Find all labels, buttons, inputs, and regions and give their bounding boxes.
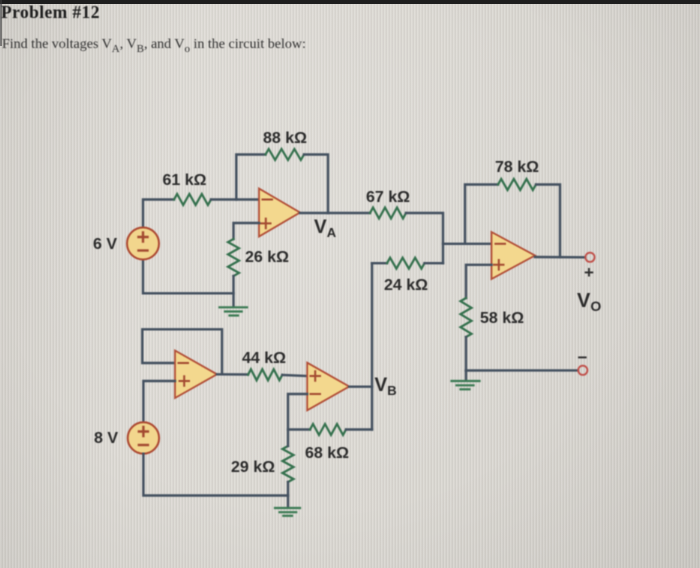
ground (stage 3) bbox=[275, 508, 300, 516]
wire: U3 feedback loop bbox=[142, 329, 222, 374]
U1 minus sign bbox=[263, 199, 273, 201]
svg-text:8 V: 8 V bbox=[94, 430, 118, 447]
resistor R 26k zigzag (vertical) bbox=[228, 239, 239, 276]
svg-text:24 kΩ: 24 kΩ bbox=[384, 277, 428, 294]
U3 minus sign bbox=[179, 362, 189, 364]
svg-text:67 kΩ: 67 kΩ bbox=[366, 189, 410, 206]
svg-text:68 kΩ: 68 kΩ bbox=[305, 445, 349, 462]
svg-text:26 kΩ: 26 kΩ bbox=[245, 249, 289, 266]
svg-text:6 V: 6 V bbox=[93, 236, 117, 253]
wire: 58k down to bottom rail bbox=[465, 337, 467, 371]
op-amp U3 bbox=[175, 351, 217, 399]
wire: node to 29k bbox=[287, 430, 289, 447]
wire: 24k branch bbox=[372, 262, 387, 264]
wire: ground stem stage 2 bbox=[465, 371, 467, 381]
wire: U3 noninverting input to 8V source bbox=[143, 381, 175, 423]
wire: 67k right then down to summing node bbox=[406, 213, 443, 263]
U2 minus sign bbox=[496, 243, 506, 245]
wire: 88k to output node riser bbox=[304, 155, 328, 214]
wire: 8V bottom rail bbox=[143, 454, 288, 496]
wire: U4 inverting input down to 68k/29k node bbox=[288, 394, 310, 430]
title: Problem #12 bbox=[1, 2, 100, 23]
wire: 44k to U4 noninverting input bbox=[282, 375, 307, 376]
resistor R 67k zigzag bbox=[370, 208, 406, 219]
U2 plus sign bbox=[494, 260, 504, 270]
wire: feedback left riser at node x=236 bbox=[236, 155, 265, 200]
wire: 6V top terminal up and right to 61k bbox=[143, 200, 174, 229]
prompt text bbox=[2, 37, 306, 55]
ground (stage 2) bbox=[452, 381, 480, 389]
op-amp U4 bbox=[307, 363, 349, 411]
resistor R 24k zigzag bbox=[387, 258, 425, 269]
wire: bottom rail to minus terminal bbox=[466, 369, 578, 372]
source V1 6V bbox=[127, 228, 159, 260]
source V2 8V bbox=[128, 422, 159, 453]
resistor R 61k zigzag bbox=[174, 194, 211, 205]
wire: 68k to VB riser bbox=[346, 428, 372, 430]
wire: U2 feedback riser bbox=[465, 185, 498, 244]
terminal - (open circle) bbox=[578, 366, 587, 375]
U3 plus sign bbox=[180, 376, 190, 386]
wire: U1 noninverting input to 26k bbox=[234, 223, 260, 239]
wire: 29k to bottom rail bbox=[287, 482, 289, 507]
wire: U2 noninverting input to 58k bbox=[466, 265, 492, 298]
svg-text:+: + bbox=[584, 263, 594, 282]
wire: 26k down to ground bbox=[232, 276, 234, 307]
wire: 61k to U1 inverting input bbox=[211, 198, 259, 200]
resistor R 78k zigzag (feedback) bbox=[498, 179, 536, 190]
svg-text:−: − bbox=[578, 348, 588, 367]
resistor R 29k zigzag (vertical) bbox=[283, 446, 294, 482]
wire: U3 output to 44k bbox=[217, 373, 248, 376]
ground (stage 1) bbox=[220, 307, 248, 315]
resistor R 88k zigzag (feedback) bbox=[266, 149, 305, 160]
svg-text:29 kΩ: 29 kΩ bbox=[231, 459, 275, 476]
op-amp U1 bbox=[259, 189, 300, 237]
svg-text:61 kΩ: 61 kΩ bbox=[163, 172, 207, 189]
wire: 24k to node riser bbox=[425, 262, 444, 264]
wire: 78k down to output bbox=[536, 185, 560, 258]
svg-text:58 kΩ: 58 kΩ bbox=[480, 310, 524, 327]
svg-text:VO: VO bbox=[577, 290, 601, 314]
U1 plus sign bbox=[261, 219, 271, 229]
resistor R 68k zigzag (feedback) bbox=[310, 424, 346, 435]
svg-text:44 kΩ: 44 kΩ bbox=[242, 350, 286, 367]
wire: U2 output to terminal bbox=[535, 256, 585, 259]
wire: 6V bottom around to ground node bbox=[143, 260, 234, 294]
wire: VB vertical riser bbox=[371, 263, 373, 429]
wire: summing node to U2 inverting input bbox=[443, 243, 492, 245]
wire: U4 output to VB node bbox=[349, 386, 372, 388]
resistor R 58k zigzag (vertical) bbox=[461, 298, 472, 337]
U4 minus sign (bottom input) bbox=[311, 393, 321, 395]
svg-text:88 kΩ: 88 kΩ bbox=[263, 130, 307, 147]
resistor R 44k zigzag bbox=[248, 369, 282, 380]
wire: U1 output line bbox=[300, 212, 370, 214]
op-amp U2 bbox=[492, 232, 536, 279]
svg-text:VB: VB bbox=[375, 375, 397, 398]
terminal + (open circle) bbox=[585, 253, 594, 262]
svg-text:VA: VA bbox=[314, 217, 337, 240]
U4 plus sign (top input) bbox=[311, 371, 321, 381]
svg-text:78 kΩ: 78 kΩ bbox=[495, 159, 539, 176]
